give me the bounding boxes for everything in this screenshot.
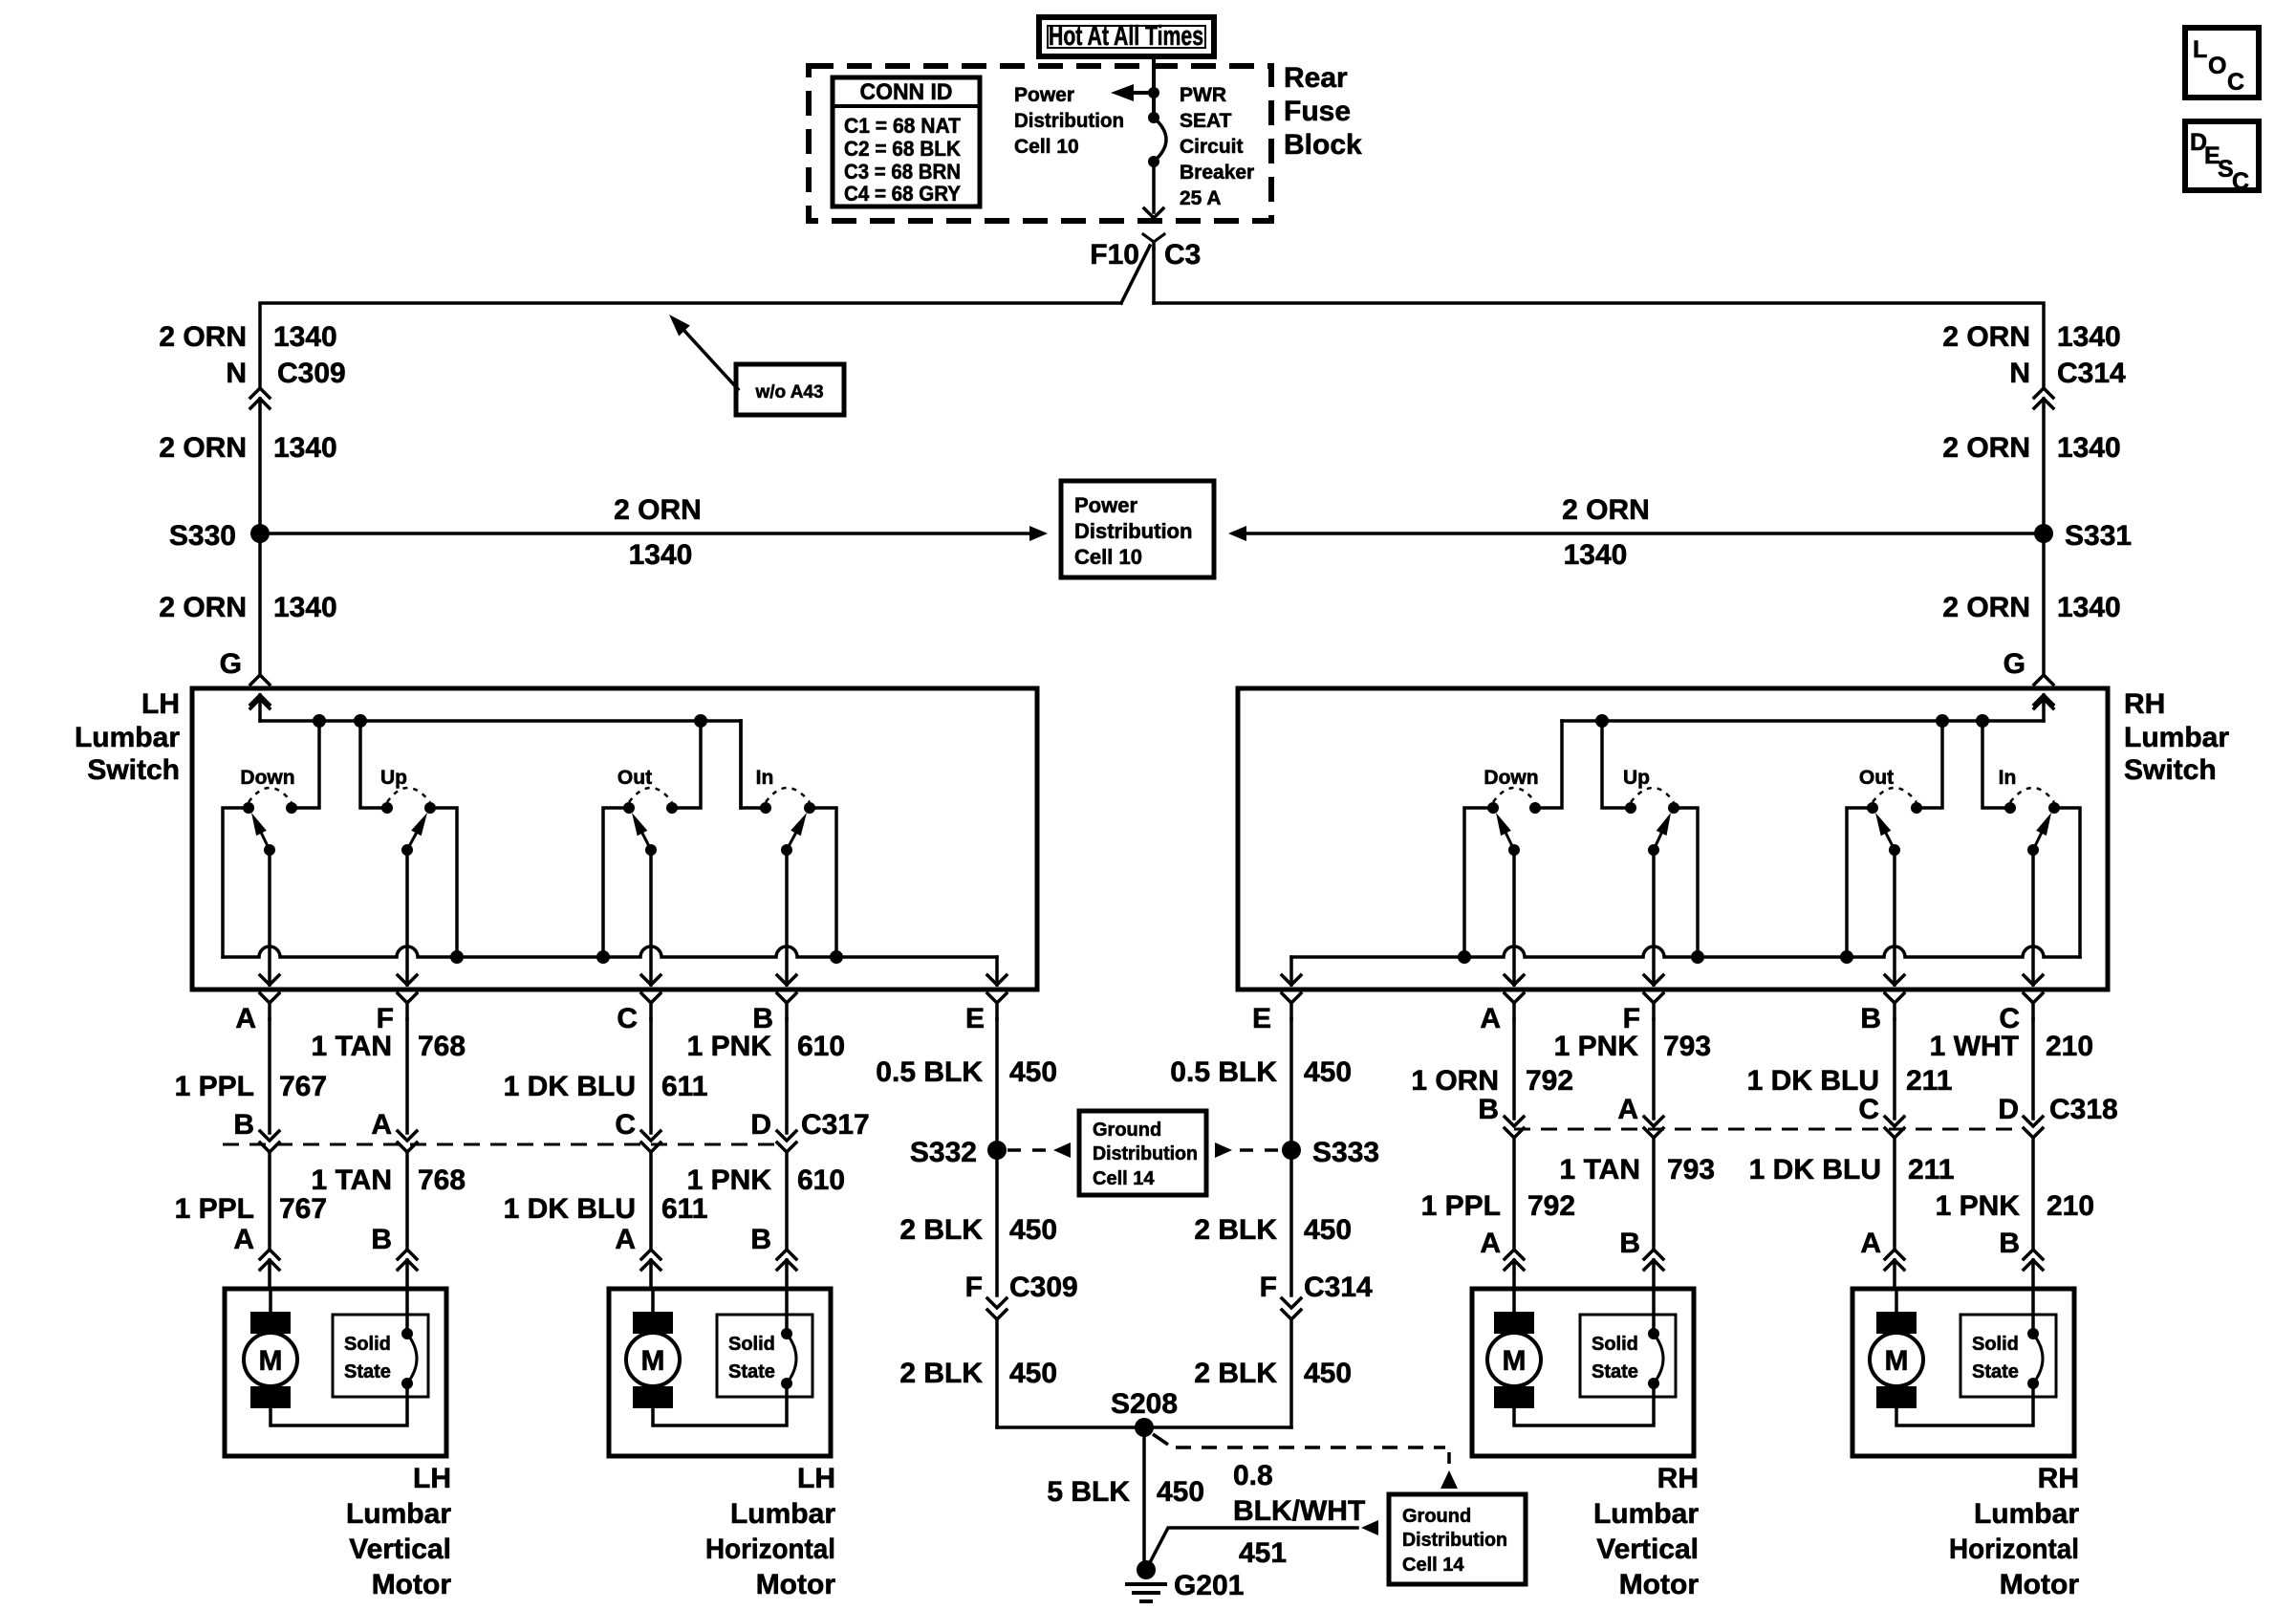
svg-text:S331: S331 xyxy=(2065,520,2132,552)
svg-text:1340: 1340 xyxy=(2057,432,2121,464)
svg-text:1 PNK: 1 PNK xyxy=(687,1164,772,1196)
label: 2 BLK 450 (above C309 F) xyxy=(899,1214,1057,1246)
svg-text:211: 211 xyxy=(1906,1065,1952,1097)
svg-text:450: 450 xyxy=(1009,1214,1057,1246)
power distribution reference text (Cell 10) xyxy=(1014,84,1124,158)
svg-text:1340: 1340 xyxy=(273,592,337,623)
label box: w/o A43 xyxy=(736,364,844,415)
svg-text:1 PPL: 1 PPL xyxy=(1421,1190,1501,1222)
svg-text:2 ORN: 2 ORN xyxy=(1942,432,2030,464)
svg-text:State: State xyxy=(728,1361,775,1382)
wire: RH pin B to connector C318 xyxy=(1885,1019,1904,1249)
svg-text:A: A xyxy=(235,1003,256,1034)
wire: 2 ORN 1340 from C314 to S331 xyxy=(2042,399,2046,533)
svg-text:C309: C309 xyxy=(1009,1272,1078,1303)
label: 1 TAN 768 (above C317) xyxy=(312,1031,466,1062)
svg-text:2 BLK: 2 BLK xyxy=(899,1214,983,1246)
svg-text:C2 = 68 BLK: C2 = 68 BLK xyxy=(844,137,961,161)
label: 1 DK BLU 611 (above C317) xyxy=(504,1071,708,1102)
svg-text:Distribution: Distribution xyxy=(1402,1530,1507,1551)
svg-text:F: F xyxy=(1260,1272,1277,1303)
connector C314 pin F xyxy=(1260,1272,1373,1427)
svg-text:5 BLK: 5 BLK xyxy=(1047,1476,1130,1508)
svg-text:A: A xyxy=(1617,1094,1638,1125)
svg-text:211: 211 xyxy=(1908,1154,1954,1186)
label: 2 ORN 1340 (S331 horizontal) xyxy=(1562,494,1650,571)
connector C317 (dashed) xyxy=(223,1143,776,1146)
svg-text:Motor: Motor xyxy=(1619,1569,1700,1600)
svg-text:1 PPL: 1 PPL xyxy=(175,1071,254,1102)
svg-text:Distribution: Distribution xyxy=(1074,519,1192,543)
svg-text:2 ORN: 2 ORN xyxy=(1562,494,1650,526)
label: 1 PNK 793 (above C318) xyxy=(1554,1031,1711,1062)
svg-text:Circuit: Circuit xyxy=(1180,136,1244,158)
label: 2 ORN 1340 (to pin G, RH) xyxy=(1942,592,2120,623)
wire: to splice S208 (right branch) xyxy=(1144,1425,1291,1429)
svg-text:Motor: Motor xyxy=(756,1569,836,1600)
svg-text:S330: S330 xyxy=(169,520,236,552)
svg-text:Switch: Switch xyxy=(2124,754,2217,786)
LH motor connector pin letters xyxy=(233,1224,771,1255)
svg-text:C: C xyxy=(2232,168,2249,195)
svg-text:LH: LH xyxy=(141,688,180,720)
connectors at RH switch pins xyxy=(1282,993,2043,1019)
svg-text:793: 793 xyxy=(1667,1154,1715,1186)
svg-text:BLK/WHT: BLK/WHT xyxy=(1233,1495,1365,1527)
svg-text:1 WHT: 1 WHT xyxy=(1930,1031,2019,1062)
wire: LH pin C to connector C317 xyxy=(641,1019,661,1249)
switch: RH Up xyxy=(1602,721,1704,985)
wire: S332 to connector C309 pin F xyxy=(995,1150,999,1295)
svg-text:B: B xyxy=(371,1224,392,1255)
svg-text:1 PNK: 1 PNK xyxy=(1554,1031,1639,1062)
svg-text:N: N xyxy=(2009,358,2030,389)
svg-text:792: 792 xyxy=(1527,1190,1575,1222)
ground distribution box (bottom): Ground Distribution Cell 14 xyxy=(1389,1494,1526,1584)
connector C314 (pin N) xyxy=(2034,388,2053,408)
label: 1 PPL 767 (above C317) xyxy=(175,1071,327,1102)
svg-text:2 BLK: 2 BLK xyxy=(899,1358,983,1389)
LOC reference box xyxy=(2185,28,2259,98)
svg-text:PWR: PWR xyxy=(1180,84,1226,106)
label: 1 PNK 610 (above C317) xyxy=(687,1031,845,1062)
label: 2 ORN 1340 (to pin G, LH) xyxy=(159,592,336,623)
svg-text:1340: 1340 xyxy=(2057,321,2121,353)
pin G label (LH) xyxy=(220,648,242,680)
switch: RH In xyxy=(1982,721,2080,985)
svg-text:Horizontal: Horizontal xyxy=(705,1534,835,1565)
rear fuse block label: Rear Fuse Block xyxy=(1284,62,1362,161)
svg-text:N: N xyxy=(226,358,247,389)
label: 2 BLK 450 (above C314 F) xyxy=(1194,1214,1352,1246)
svg-text:B: B xyxy=(1478,1094,1499,1125)
svg-text:Up: Up xyxy=(1623,767,1650,789)
RH lumbar switch box xyxy=(1238,688,2108,990)
svg-text:611: 611 xyxy=(661,1193,707,1225)
label: 1 TAN 793 (below C318) xyxy=(1560,1154,1716,1186)
svg-text:C3: C3 xyxy=(1164,239,1201,271)
DESC reference box xyxy=(2185,121,2259,195)
label: 2 BLK 450 (below C309 F) xyxy=(899,1358,1057,1389)
label: 2 ORN 1340 (S330 horizontal) xyxy=(614,494,702,571)
svg-text:793: 793 xyxy=(1663,1031,1711,1062)
wire: main feed bus right (to RH lumbar circuit) xyxy=(1154,303,2044,387)
wire: pin G entry to internal bus (RH) xyxy=(2034,695,2053,721)
label: 1 DK BLU 611 (below C317) xyxy=(504,1193,708,1225)
svg-text:Solid: Solid xyxy=(1592,1334,1638,1355)
svg-text:1340: 1340 xyxy=(2057,592,2121,623)
connector: LH switch pin G xyxy=(250,675,270,705)
svg-text:Breaker: Breaker xyxy=(1180,162,1254,184)
svg-text:2 ORN: 2 ORN xyxy=(159,432,247,464)
svg-text:Lumbar: Lumbar xyxy=(730,1498,835,1530)
svg-text:Cell 10: Cell 10 xyxy=(1074,545,1142,569)
svg-text:Horizontal: Horizontal xyxy=(1949,1534,2079,1565)
svg-text:1 ORN: 1 ORN xyxy=(1411,1065,1499,1097)
wire: LH pin A to connector C317 xyxy=(260,1019,279,1249)
svg-text:767: 767 xyxy=(279,1193,327,1225)
svg-text:A: A xyxy=(371,1109,392,1141)
svg-text:610: 610 xyxy=(797,1164,845,1196)
splice S331 xyxy=(2034,520,2132,552)
svg-text:Out: Out xyxy=(617,767,652,789)
svg-text:2 ORN: 2 ORN xyxy=(614,494,702,526)
svg-text:M: M xyxy=(641,1345,665,1377)
svg-text:25 A: 25 A xyxy=(1180,187,1222,209)
LH lumbar switch box xyxy=(192,688,1037,990)
label: 0.8 BLK/WHT 451 xyxy=(1233,1460,1365,1569)
svg-text:Lumbar: Lumbar xyxy=(1974,1498,2079,1530)
svg-text:C: C xyxy=(615,1109,636,1141)
RH lumbar switch label xyxy=(2124,688,2229,786)
wire: LH pin F to connector C317 xyxy=(398,1019,417,1249)
wire: S331 down to RH switch pin G xyxy=(2042,533,2046,674)
svg-text:0.5 BLK: 0.5 BLK xyxy=(876,1056,983,1088)
splice S208 xyxy=(1111,1388,1178,1437)
svg-text:767: 767 xyxy=(279,1071,327,1102)
dashed reference: Ground Distribution Cell 14 to S333 xyxy=(1215,1142,1281,1158)
label: 1 PPL 792 (below C318) xyxy=(1421,1190,1575,1222)
label: 0.5 BLK 450 (RH E) xyxy=(1170,1056,1352,1088)
svg-text:A: A xyxy=(1860,1228,1881,1259)
svg-text:Down: Down xyxy=(1484,767,1538,789)
svg-text:210: 210 xyxy=(2047,1190,2094,1222)
svg-text:Fuse: Fuse xyxy=(1284,96,1351,127)
svg-text:610: 610 xyxy=(797,1031,845,1062)
svg-text:Power: Power xyxy=(1014,84,1074,106)
wire: connector C3 down to bus xyxy=(1152,249,1156,303)
svg-text:1 DK BLU: 1 DK BLU xyxy=(1747,1065,1879,1097)
switch: LH Out xyxy=(596,721,701,985)
LH switch pin letters xyxy=(235,1003,985,1034)
svg-text:Vertical: Vertical xyxy=(349,1534,451,1565)
svg-text:Solid: Solid xyxy=(344,1334,391,1355)
svg-text:B: B xyxy=(1619,1228,1640,1259)
svg-text:SEAT: SEAT xyxy=(1180,110,1232,132)
svg-text:E: E xyxy=(965,1003,985,1034)
svg-text:1340: 1340 xyxy=(273,321,337,353)
svg-text:Cell 10: Cell 10 xyxy=(1014,136,1079,158)
svg-text:450: 450 xyxy=(1304,1214,1352,1246)
RH lumbar horizontal motor xyxy=(1852,1289,2079,1600)
LH lumbar vertical motor xyxy=(225,1289,451,1600)
svg-text:1 DK BLU: 1 DK BLU xyxy=(1749,1154,1881,1186)
label: 1 PNK 210 (below C318) xyxy=(1936,1190,2094,1222)
svg-text:CONN ID: CONN ID xyxy=(860,79,953,105)
svg-text:C314: C314 xyxy=(2057,358,2126,389)
svg-text:1 PNK: 1 PNK xyxy=(1936,1190,2021,1222)
svg-text:LH: LH xyxy=(413,1463,451,1494)
svg-text:2 ORN: 2 ORN xyxy=(159,321,247,353)
wire: 5 BLK 450 from S208 to ground xyxy=(1142,1427,1146,1564)
fuse F10 slash xyxy=(1121,246,1150,303)
splice S333 xyxy=(1282,1137,1379,1168)
svg-text:Ground: Ground xyxy=(1093,1120,1161,1141)
svg-text:Up: Up xyxy=(380,767,407,789)
svg-text:450: 450 xyxy=(1304,1056,1352,1088)
svg-text:G201: G201 xyxy=(1174,1570,1244,1601)
svg-text:2 BLK: 2 BLK xyxy=(1194,1214,1277,1246)
svg-text:1340: 1340 xyxy=(1564,539,1628,571)
wire: to splice S208 (left branch) xyxy=(997,1425,1144,1429)
svg-text:B: B xyxy=(750,1224,771,1255)
wire: RH internal ground-side bus to pin E xyxy=(1282,946,2080,985)
label: 2 BLK 450 (below C314 F) xyxy=(1194,1358,1352,1389)
svg-text:A: A xyxy=(233,1224,254,1255)
svg-text:C: C xyxy=(617,1003,638,1034)
svg-text:Distribution: Distribution xyxy=(1093,1143,1198,1164)
splice S330 xyxy=(169,520,270,552)
connector C309 pin N label xyxy=(226,358,345,389)
connectors at LH motor pins xyxy=(260,1250,796,1289)
label: 1 DK BLU 211 (above C318) xyxy=(1747,1065,1953,1097)
switch: RH Out xyxy=(1840,721,1942,985)
svg-text:LH: LH xyxy=(797,1463,835,1494)
label: 1 TAN 768 (below C317) xyxy=(312,1164,466,1196)
svg-text:B: B xyxy=(1860,1003,1881,1034)
svg-text:In: In xyxy=(1999,767,2017,789)
svg-text:Block: Block xyxy=(1284,129,1362,161)
wire: RH pin E down to S333 xyxy=(1289,1019,1293,1150)
label: 2 ORN 1340 (below C314) xyxy=(1942,432,2120,464)
svg-text:State: State xyxy=(1592,1361,1638,1382)
label: 2 ORN 1340 (above C309) xyxy=(159,321,336,353)
connectors at RH motor pins xyxy=(1505,1250,2043,1289)
svg-text:M: M xyxy=(1503,1345,1527,1377)
RH motor connector pin letters xyxy=(1480,1228,2020,1259)
LH lumbar switch label xyxy=(75,688,180,786)
svg-text:G: G xyxy=(2004,648,2025,680)
svg-text:RH: RH xyxy=(2038,1463,2079,1494)
svg-text:2 BLK: 2 BLK xyxy=(1194,1358,1277,1389)
dashed reference: S208 to Ground Distribution Cell 14 xyxy=(1153,1434,1458,1489)
svg-text:210: 210 xyxy=(2046,1031,2093,1062)
wire: main feed bus left (to LH lumbar circuit) xyxy=(260,303,1121,387)
wire: RH pin F to connector C318 xyxy=(1644,1019,1663,1249)
svg-text:C: C xyxy=(2227,69,2244,96)
svg-text:1340: 1340 xyxy=(629,539,693,571)
svg-text:A: A xyxy=(615,1224,636,1255)
RH switch pin letters xyxy=(1252,1003,2020,1034)
dashed reference: S332 to Ground Distribution Cell 14 xyxy=(1007,1142,1071,1158)
svg-text:1 DK BLU: 1 DK BLU xyxy=(504,1071,636,1102)
arrow from w/o A43 to feed bus xyxy=(669,315,738,389)
svg-text:Solid: Solid xyxy=(728,1334,775,1355)
switch: LH In (bus end drop) xyxy=(741,721,843,985)
svg-text:611: 611 xyxy=(661,1071,707,1102)
junction block label box: Hot At All Times xyxy=(1039,17,1214,56)
connector C309 (pin N) xyxy=(250,388,270,408)
connectors at LH switch pins xyxy=(260,993,1007,1019)
svg-text:G: G xyxy=(220,648,242,680)
svg-text:D: D xyxy=(750,1109,771,1141)
svg-text:792: 792 xyxy=(1526,1065,1573,1097)
label: 1 DK BLU 211 (below C318) xyxy=(1749,1154,1955,1186)
svg-text:Cell 14: Cell 14 xyxy=(1402,1555,1464,1576)
wire: 451 to Ground Distribution Cell 14 xyxy=(1147,1520,1378,1568)
svg-text:Down: Down xyxy=(240,767,294,789)
svg-text:1 TAN: 1 TAN xyxy=(1560,1154,1640,1186)
svg-text:Lumbar: Lumbar xyxy=(75,722,180,753)
arrow to Power Distribution Cell 10 xyxy=(1111,84,1154,101)
rear fuse block (dashed outline) xyxy=(809,66,1271,221)
label: 2 ORN 1340 (above C314) xyxy=(1942,321,2120,353)
svg-text:1 DK BLU: 1 DK BLU xyxy=(504,1193,636,1225)
wire: pin G entry to internal bus (LH) xyxy=(250,695,270,721)
label: 1 ORN 792 (above C318) xyxy=(1411,1065,1573,1097)
svg-text:Hot At All Times: Hot At All Times xyxy=(1049,21,1203,52)
connector F10 / C3 xyxy=(1090,234,1201,271)
wire: RH pin A to connector C318 xyxy=(1505,1019,1524,1249)
svg-text:2 ORN: 2 ORN xyxy=(1942,321,2030,353)
svg-text:M: M xyxy=(1885,1345,1909,1377)
svg-text:S333: S333 xyxy=(1312,1137,1379,1168)
CONN ID table xyxy=(833,77,980,207)
svg-text:State: State xyxy=(344,1361,391,1382)
svg-text:E: E xyxy=(1252,1003,1271,1034)
svg-text:768: 768 xyxy=(418,1031,466,1062)
circuit breaker label: PWR SEAT Circuit Breaker 25 A xyxy=(1180,84,1254,209)
svg-text:RH: RH xyxy=(1657,1463,1699,1494)
svg-text:451: 451 xyxy=(1239,1537,1287,1569)
LH lumbar horizontal motor xyxy=(609,1289,835,1600)
svg-text:450: 450 xyxy=(1157,1476,1204,1508)
svg-text:A: A xyxy=(1480,1228,1501,1259)
label: 1 WHT 210 (above C318) xyxy=(1930,1031,2093,1062)
RH lumbar vertical motor xyxy=(1472,1289,1699,1600)
wire: RH internal supply bus xyxy=(1562,714,2044,728)
wire: S330 down to LH switch pin G xyxy=(258,533,262,674)
wire: breaker output to fuse block edge xyxy=(1144,162,1163,218)
wire: 2 ORN 1340 from C309 to S330 xyxy=(258,399,262,533)
svg-text:450: 450 xyxy=(1304,1358,1352,1389)
connector C318 (dashed) xyxy=(1514,1128,2023,1131)
connector: RH switch pin G xyxy=(2034,675,2053,705)
wire: S331 to Power Distribution Cell 10 xyxy=(1228,526,2044,541)
svg-text:C: C xyxy=(1858,1094,1879,1125)
pin G label (RH) xyxy=(2004,648,2025,680)
svg-text:F: F xyxy=(965,1272,983,1303)
svg-text:Lumbar: Lumbar xyxy=(2124,722,2229,753)
svg-text:1 PNK: 1 PNK xyxy=(687,1031,772,1062)
svg-text:Vertical: Vertical xyxy=(1596,1534,1699,1565)
connector C317 pin letters xyxy=(233,1109,869,1141)
wire: S330 to Power Distribution Cell 10 xyxy=(260,526,1048,541)
svg-text:C318: C318 xyxy=(2049,1094,2118,1125)
switch: LH Up xyxy=(360,721,464,985)
svg-text:F10: F10 xyxy=(1090,239,1139,271)
svg-text:B: B xyxy=(1999,1228,2020,1259)
splice S332 xyxy=(910,1137,1007,1168)
svg-text:M: M xyxy=(259,1345,283,1377)
connector C318 pin letters xyxy=(1478,1094,2117,1125)
svg-text:1 TAN: 1 TAN xyxy=(312,1031,392,1062)
node: feed junction xyxy=(1148,87,1159,98)
svg-text:C309: C309 xyxy=(277,358,346,389)
label: 1 PPL 767 (below C317) xyxy=(175,1193,327,1225)
power distribution box: Power Distribution Cell 10 xyxy=(1061,481,1214,577)
svg-text:State: State xyxy=(1972,1361,2019,1382)
wire: LH pin B to connector C317 xyxy=(777,1019,796,1249)
svg-text:768: 768 xyxy=(418,1164,466,1196)
svg-text:450: 450 xyxy=(1009,1056,1057,1088)
switch: LH Down xyxy=(223,721,319,985)
label: 1 PNK 610 (below C317) xyxy=(687,1164,845,1196)
svg-text:L: L xyxy=(2193,36,2207,63)
connector C309 pin F xyxy=(965,1272,1078,1427)
wire: battery feed into fuse block xyxy=(1152,56,1156,118)
circuit breaker PWR SEAT 25 A xyxy=(1148,112,1166,167)
svg-text:C314: C314 xyxy=(1304,1272,1373,1303)
svg-text:0.8: 0.8 xyxy=(1233,1460,1273,1491)
svg-text:Distribution: Distribution xyxy=(1014,110,1124,132)
svg-text:D: D xyxy=(1998,1094,2019,1125)
svg-text:Rear: Rear xyxy=(1284,62,1348,94)
svg-text:Motor: Motor xyxy=(2000,1569,2080,1600)
wire: LH pin E down to S332 xyxy=(995,1019,999,1150)
wire: S333 to connector C314 pin F xyxy=(1289,1150,1293,1295)
svg-text:C1 = 68 NAT: C1 = 68 NAT xyxy=(844,114,962,138)
svg-text:1 PPL: 1 PPL xyxy=(175,1193,254,1225)
svg-text:Ground: Ground xyxy=(1402,1506,1471,1527)
ground G201 xyxy=(1125,1560,1244,1601)
svg-text:A: A xyxy=(1480,1003,1501,1034)
svg-text:C3 = 68 BRN: C3 = 68 BRN xyxy=(844,160,961,184)
label: 2 ORN 1340 (below C309) xyxy=(159,432,336,464)
wire: RH pin C to connector C318 xyxy=(2024,1019,2043,1249)
svg-text:1 TAN: 1 TAN xyxy=(312,1164,392,1196)
svg-text:Cell 14: Cell 14 xyxy=(1093,1168,1155,1189)
svg-text:w/o A43: w/o A43 xyxy=(754,382,823,402)
svg-text:In: In xyxy=(756,767,774,789)
svg-text:450: 450 xyxy=(1009,1358,1057,1389)
svg-text:Solid: Solid xyxy=(1972,1334,2019,1355)
svg-text:1340: 1340 xyxy=(273,432,337,464)
switch: RH Down (bus end drop) xyxy=(1458,721,1562,985)
svg-text:2 ORN: 2 ORN xyxy=(1942,592,2030,623)
svg-text:0.5 BLK: 0.5 BLK xyxy=(1170,1056,1277,1088)
svg-text:O: O xyxy=(2208,53,2226,79)
svg-text:S208: S208 xyxy=(1111,1388,1178,1420)
wire: LH internal supply bus xyxy=(260,714,741,728)
wire: LH internal ground-side bus to pin E xyxy=(223,946,1007,985)
svg-text:2 ORN: 2 ORN xyxy=(159,592,247,623)
label: 5 BLK 450 xyxy=(1047,1476,1204,1508)
svg-text:Power: Power xyxy=(1074,493,1137,517)
svg-text:RH: RH xyxy=(2124,688,2165,720)
svg-text:Motor: Motor xyxy=(372,1569,452,1600)
ground distribution box (center): Ground Distribution Cell 14 xyxy=(1079,1111,1206,1195)
